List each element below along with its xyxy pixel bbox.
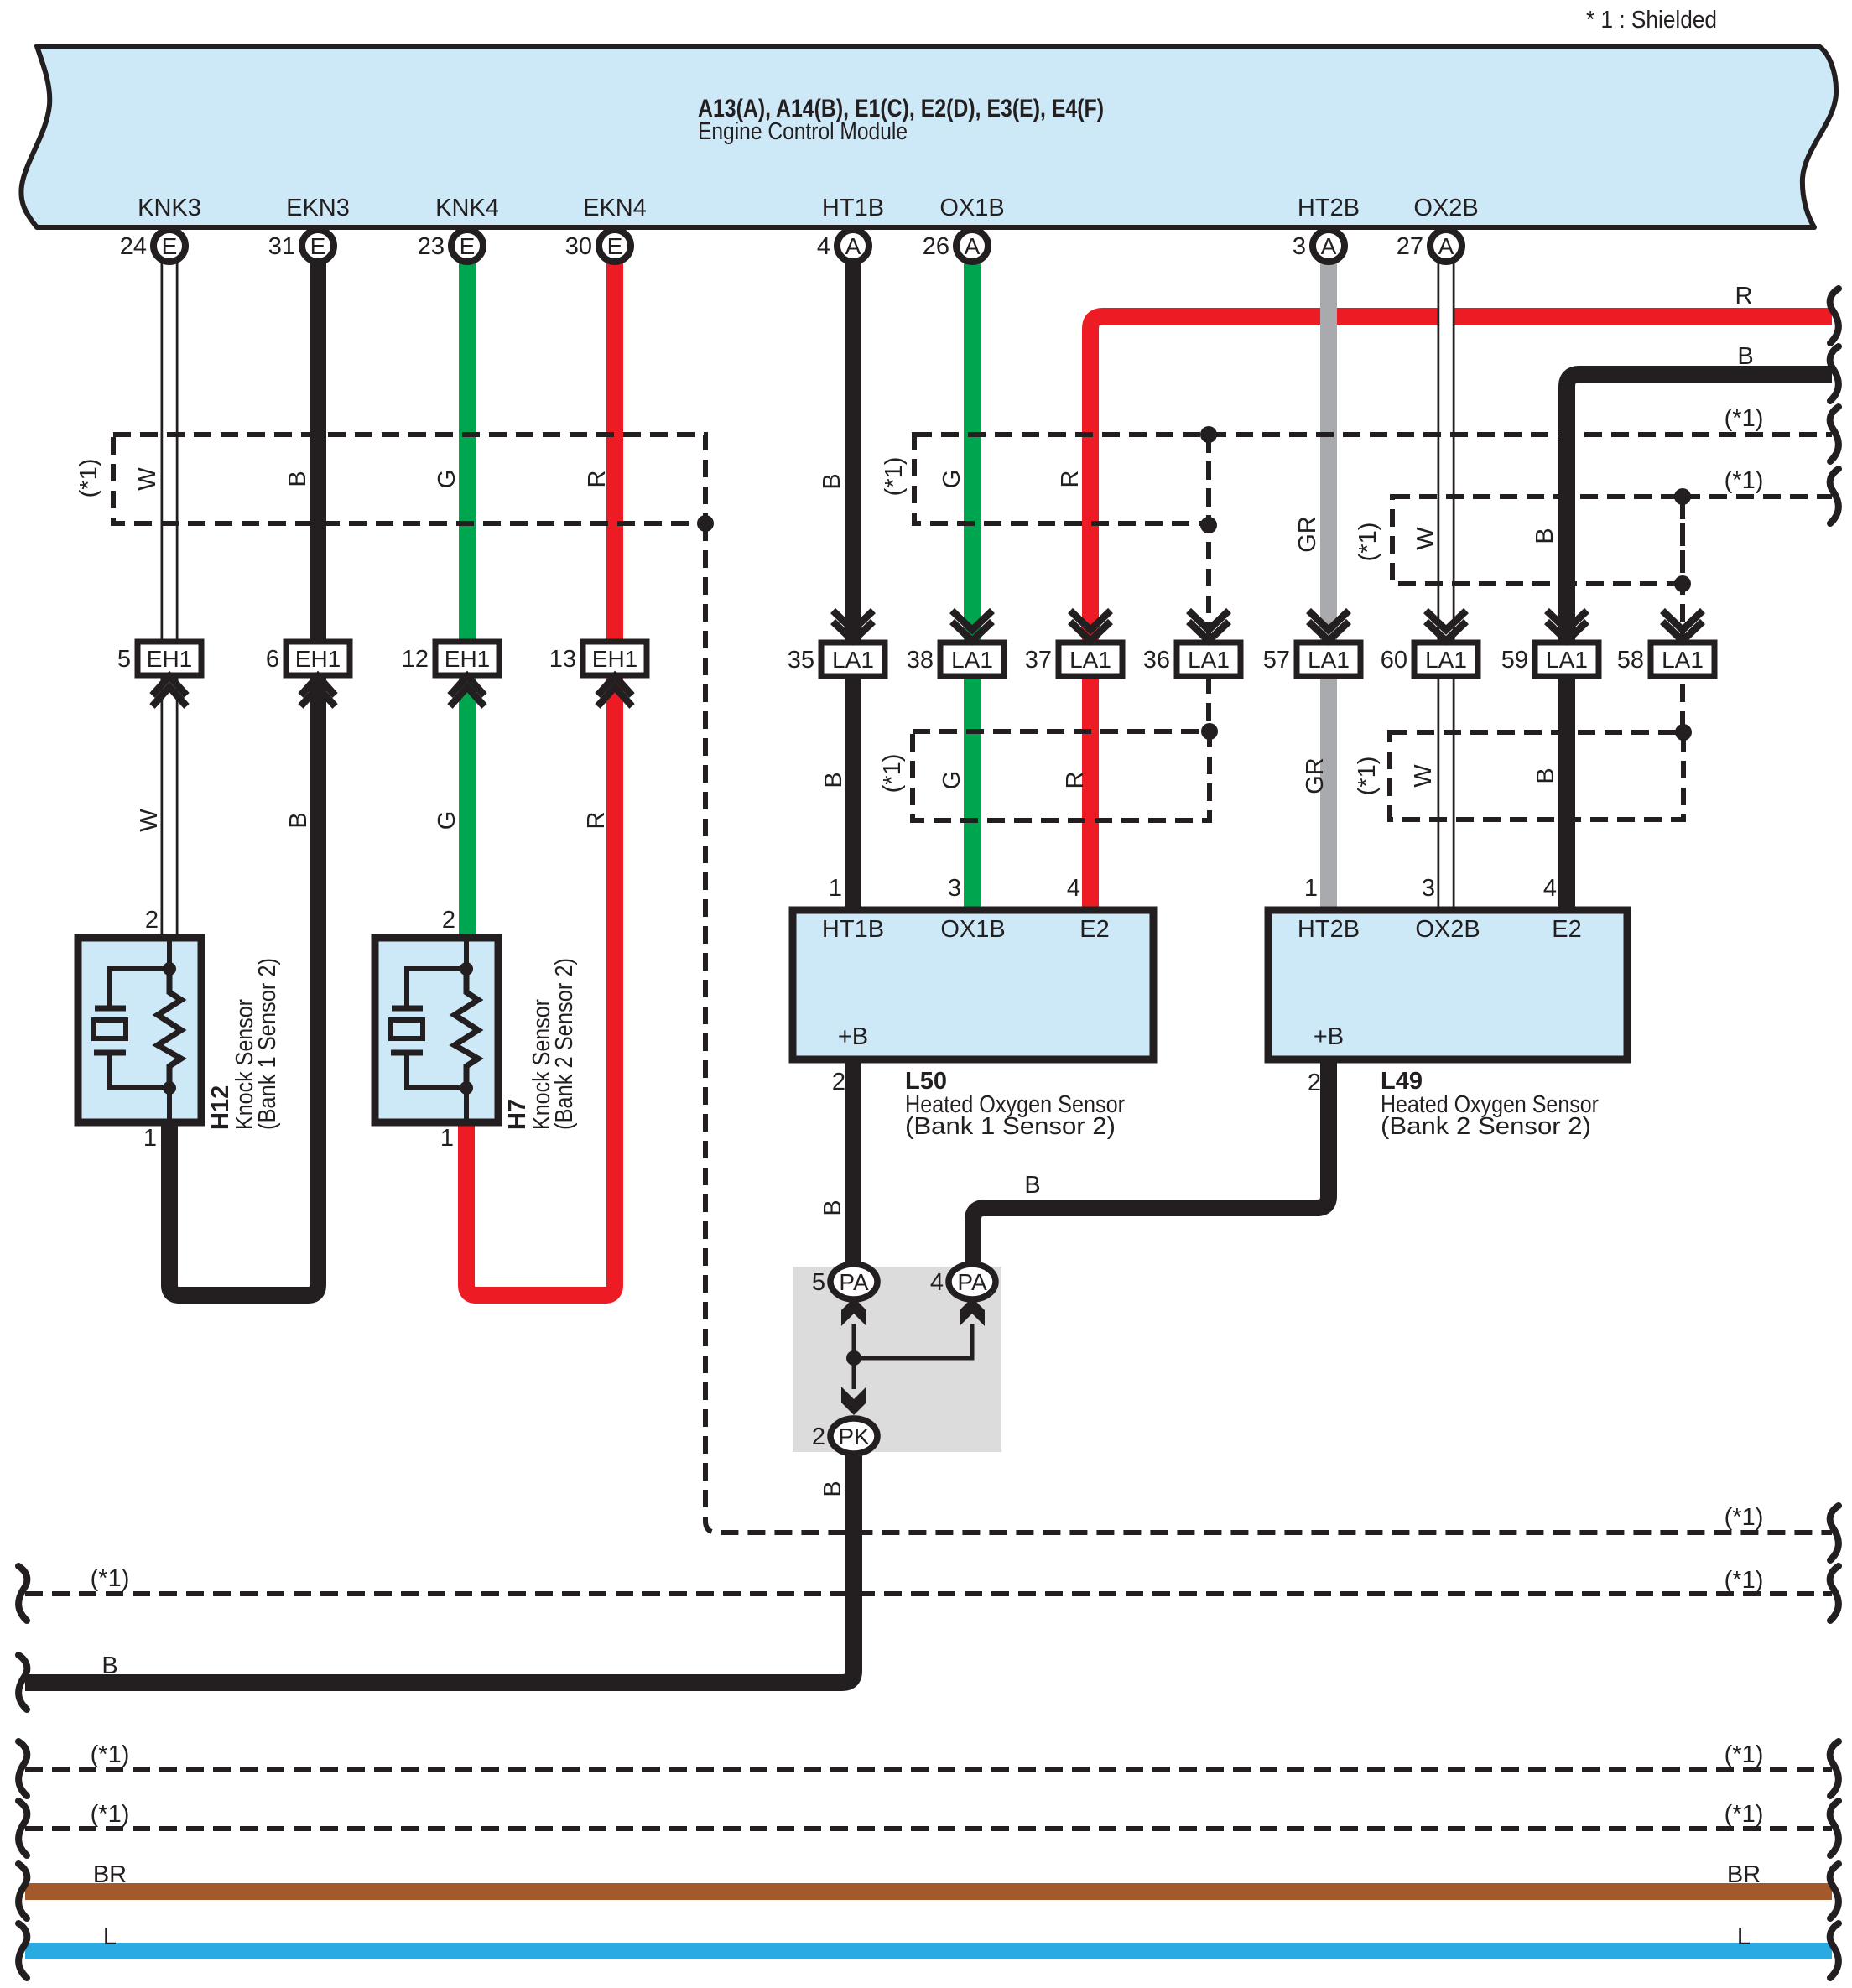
in-line connector 6 EH1 (knock) [266, 642, 350, 706]
shield wire full width lower 1 (dashed) [25, 1767, 1832, 1772]
svg-text:(*1): (*1) [881, 457, 908, 497]
svg-text:12: 12 [402, 646, 429, 673]
svg-text:23: 23 [418, 233, 445, 260]
svg-text:1: 1 [829, 875, 842, 902]
svg-text:+B: +B [1314, 1023, 1344, 1050]
svg-text:1: 1 [1304, 875, 1318, 902]
in-line connector 36 LA1 (oxygen) [1143, 611, 1241, 676]
svg-text:LA1: LA1 [832, 647, 874, 673]
svg-text:2: 2 [442, 907, 455, 934]
svg-text:OX2B: OX2B [1415, 916, 1480, 943]
H12 internal wiring [110, 941, 169, 1119]
svg-text:(Bank 2 Sensor 2): (Bank 2 Sensor 2) [1381, 1113, 1591, 1140]
connector pin 23 E (KNK4) [418, 230, 483, 262]
svg-text:G: G [939, 470, 965, 489]
svg-text:LA1: LA1 [951, 647, 993, 673]
svg-text:(*1): (*1) [1725, 1567, 1764, 1594]
svg-text:E2: E2 [1552, 916, 1581, 943]
connector pin 24 E (KNK3) [120, 230, 185, 262]
svg-text:LA1: LA1 [1069, 647, 1111, 673]
svg-text:3: 3 [948, 875, 961, 902]
connector arrows [841, 1298, 866, 1326]
svg-text:E: E [607, 233, 623, 259]
junction node in gray block [846, 1350, 861, 1366]
svg-text:3: 3 [1422, 875, 1435, 902]
in-line connector 60 LA1 (oxygen) [1381, 611, 1478, 676]
svg-text:A: A [965, 233, 981, 259]
svg-text:G: G [434, 811, 460, 830]
svg-text:R: R [1062, 772, 1089, 789]
svg-text:(Bank 2 Sensor 2): (Bank 2 Sensor 2) [551, 958, 578, 1130]
svg-text:PA: PA [839, 1269, 869, 1295]
svg-text:5: 5 [812, 1269, 825, 1296]
wire GR from ECM 3 HT2B to L49 pin 1 (gray) [1320, 246, 1337, 913]
svg-text:GR: GR [1294, 516, 1321, 553]
svg-text:KNK3: KNK3 [138, 195, 201, 221]
svg-text:E: E [162, 233, 178, 259]
in-line connector 5 EH1 (knock) [117, 642, 201, 706]
in-line connector 57 LA1 (oxygen) [1263, 611, 1360, 676]
svg-text:* 1 : Shielded: * 1 : Shielded [1586, 7, 1717, 34]
svg-text:3: 3 [1293, 233, 1306, 260]
svg-text:(*1): (*1) [1725, 1741, 1764, 1768]
svg-text:59: 59 [1501, 647, 1528, 674]
svg-text:30: 30 [565, 233, 592, 260]
in-line connector 37 LA1 (oxygen) [1025, 611, 1122, 676]
svg-text:H12: H12 [207, 1085, 234, 1130]
svg-text:HT1B: HT1B [822, 916, 884, 943]
wire B from ECM 4 HT1B to L50 pin 1 (black) [845, 246, 861, 913]
svg-text:36: 36 [1143, 647, 1170, 674]
svg-text:G: G [434, 470, 460, 489]
H7 resistor [455, 969, 478, 1088]
svg-text:OX1B: OX1B [940, 916, 1005, 943]
connector pin 31 E (EKN3) [268, 230, 334, 262]
svg-text:BR: BR [93, 1861, 127, 1888]
svg-text:(Bank 1 Sensor 2): (Bank 1 Sensor 2) [905, 1113, 1116, 1140]
svg-text:(*1): (*1) [1354, 757, 1381, 796]
svg-text:(*1): (*1) [91, 1741, 130, 1768]
wire B from page edge to L49 pin 4 E2 (black) [1567, 374, 1832, 913]
shield drain wire through 36 LA1 [1206, 435, 1211, 731]
svg-text:(*1): (*1) [91, 1565, 130, 1592]
in-line connector 35 LA1 (oxygen) [788, 611, 885, 676]
heated oxygen sensor L49 box [1268, 910, 1627, 1059]
svg-text:(Bank 1 Sensor 2): (Bank 1 Sensor 2) [254, 958, 281, 1130]
svg-text:L: L [1737, 1923, 1751, 1950]
shield around HT1B/OX1B/E2 wires upper (dashed box) [914, 435, 1209, 523]
shield around HT2B/OX2B/E2 wires upper right (dashed box) [1392, 497, 1683, 584]
connector pin 27 A (OX2B) [1397, 230, 1462, 262]
svg-text:2: 2 [1308, 1069, 1321, 1096]
svg-text:2: 2 [832, 1069, 845, 1095]
wire L full width (light blue) [25, 1943, 1832, 1959]
svg-text:KNK4: KNK4 [435, 195, 499, 221]
svg-text:R: R [584, 471, 611, 488]
page continuation symbols left [18, 1566, 27, 1621]
svg-text:13: 13 [549, 646, 576, 673]
svg-text:EKN3: EKN3 [286, 195, 350, 221]
shield continuation to page edge at right (upper middle) [1209, 432, 1832, 437]
svg-text:PK: PK [838, 1423, 870, 1449]
svg-text:2: 2 [812, 1423, 825, 1450]
svg-text:E: E [460, 233, 476, 259]
svg-text:4: 4 [930, 1269, 944, 1296]
svg-text:A: A [845, 233, 861, 259]
svg-text:2: 2 [145, 907, 159, 934]
svg-text:B: B [284, 471, 311, 487]
svg-text:HT1B: HT1B [822, 195, 884, 221]
svg-text:E2: E2 [1079, 916, 1109, 943]
svg-text:EH1: EH1 [592, 646, 637, 672]
svg-text:W: W [136, 809, 163, 832]
svg-text:Engine Control Module: Engine Control Module [698, 118, 908, 145]
connector pin 26 A (OX1B) [923, 230, 988, 262]
shield junction nodes [697, 515, 714, 532]
shield wire full width lower 2 (dashed) [25, 1826, 1832, 1831]
svg-text:B: B [1532, 768, 1559, 783]
svg-text:E: E [310, 233, 326, 259]
svg-text:4: 4 [817, 233, 830, 260]
wire G from ECM 23 KNK4 to H7 pin 2 (green) [459, 246, 476, 941]
wire R from page edge to L50 pin 4 E2 (red) [1090, 316, 1832, 913]
svg-text:(*1): (*1) [1725, 1801, 1764, 1828]
svg-text:OX2B: OX2B [1413, 195, 1478, 221]
svg-text:38: 38 [907, 647, 934, 674]
svg-text:EKN4: EKN4 [583, 195, 647, 221]
svg-text:B: B [820, 772, 847, 788]
svg-text:B: B [819, 1200, 846, 1215]
shield wire full width (dashed) [25, 1591, 1832, 1596]
connector 2 PK [812, 1418, 877, 1454]
svg-text:R: R [1735, 283, 1753, 310]
svg-text:B: B [1737, 343, 1753, 370]
svg-text:(*1): (*1) [91, 1801, 130, 1828]
connector pin 3 A (HT2B) [1293, 230, 1345, 262]
knock sensor H7 box [375, 938, 498, 1122]
Engine Control Module A13/A14/E1/E2/E3/E4 box [21, 46, 1836, 227]
H12 resistor [158, 969, 181, 1088]
knock sensor H12 box [78, 938, 201, 1122]
in-line connector 58 LA1 (oxygen) [1617, 611, 1714, 676]
svg-text:27: 27 [1397, 233, 1423, 260]
svg-text:A: A [1321, 233, 1337, 259]
junction block internal wire 5PA-4PA-2PK [854, 1324, 972, 1389]
svg-text:L: L [103, 1923, 117, 1950]
svg-text:B: B [101, 1652, 117, 1679]
svg-text:60: 60 [1381, 647, 1407, 674]
svg-text:HT2B: HT2B [1298, 195, 1360, 221]
shield drain wire from left shield box to page edge [705, 523, 1832, 1533]
svg-text:LA1: LA1 [1546, 647, 1588, 673]
svg-text:B: B [285, 812, 312, 828]
svg-text:R: R [1057, 471, 1084, 488]
svg-text:OX1B: OX1B [939, 195, 1004, 221]
H7 internal junction nodes [460, 962, 473, 976]
svg-text:B: B [819, 1481, 846, 1496]
junction block (gray) behind PA/PK connectors [793, 1267, 1001, 1452]
in-line connector 12 EH1 (knock) [402, 642, 499, 706]
svg-text:W: W [1410, 764, 1437, 788]
H7 internal wiring [407, 941, 466, 1119]
svg-text:1: 1 [143, 1125, 157, 1152]
svg-text:5: 5 [117, 646, 131, 673]
svg-text:(*1): (*1) [1725, 405, 1764, 432]
wire B from ECM 31 EKN3 down, U-turn to H12 pin 1 (black) [169, 246, 318, 1295]
wire B from PK pin 2 to page edge (black ground) [25, 1452, 854, 1683]
svg-text:H7: H7 [504, 1099, 531, 1130]
svg-text:R: R [583, 812, 610, 830]
in-line connector 38 LA1 (oxygen) [907, 611, 1004, 676]
wire B from L49 +B pin 2 to junction 4 PA (black) [973, 1056, 1329, 1268]
in-line connector 13 EH1 (knock) [549, 642, 647, 706]
svg-text:31: 31 [268, 233, 295, 260]
svg-text:LA1: LA1 [1308, 647, 1350, 673]
svg-text:EH1: EH1 [147, 646, 192, 672]
svg-text:B: B [1532, 528, 1558, 544]
shield around L49 harness (dashed box) [1390, 732, 1683, 820]
wire B from L50 +B pin 2 to junction 5 PA (black) [845, 1056, 861, 1268]
svg-text:4: 4 [1543, 875, 1557, 902]
svg-text:35: 35 [788, 647, 814, 674]
wire W from ECM 24 KNK3 to H12 pin 2 (white) [161, 246, 179, 941]
svg-text:26: 26 [923, 233, 949, 260]
svg-text:57: 57 [1263, 647, 1290, 674]
svg-text:EH1: EH1 [445, 646, 490, 672]
svg-text:+B: +B [838, 1023, 868, 1050]
svg-text:HT2B: HT2B [1298, 916, 1360, 943]
svg-text:(*1): (*1) [879, 754, 906, 794]
wire R from ECM 30 EKN4 down, U-turn to H7 pin 1 (red) [466, 246, 615, 1295]
shield around KNK3/EKN3/KNK4/EKN4 wires (dashed box) [113, 435, 705, 523]
svg-text:24: 24 [120, 233, 147, 260]
svg-text:G: G [939, 771, 965, 790]
svg-text:B: B [1024, 1172, 1040, 1199]
svg-text:(*1): (*1) [1725, 1504, 1764, 1531]
svg-text:(*1): (*1) [1355, 523, 1381, 562]
shield continuation to page edge at right (upper right) [1683, 494, 1832, 499]
connector pin 30 E (EKN4) [565, 230, 631, 262]
H12 piezo element [94, 1008, 126, 1053]
connector 5 PA [812, 1264, 877, 1299]
page continuation symbols right [1830, 289, 1839, 343]
heated oxygen sensor L50 box [793, 910, 1153, 1059]
svg-text:B: B [819, 473, 845, 489]
svg-text:GR: GR [1302, 757, 1329, 794]
shield drain wire through 58 LA1 [1680, 497, 1685, 732]
svg-text:(*1): (*1) [75, 459, 102, 498]
svg-text:PA: PA [957, 1269, 987, 1295]
svg-text:LA1: LA1 [1425, 647, 1467, 673]
svg-text:37: 37 [1025, 647, 1052, 674]
svg-text:1: 1 [440, 1125, 454, 1152]
H7 piezo element [391, 1008, 423, 1053]
wire W from ECM 27 OX2B to L49 pin 3 (white) [1438, 246, 1455, 913]
in-line connector 59 LA1 (oxygen) [1501, 611, 1599, 676]
svg-text:58: 58 [1617, 647, 1644, 674]
wire BR full width (brown) [25, 1883, 1832, 1900]
connector pin 4 A (HT1B) [817, 230, 869, 262]
shield around L50 harness (dashed box) [913, 731, 1210, 820]
wire G from ECM 26 OX1B to L50 pin 3 (green) [964, 246, 981, 913]
svg-text:(*1): (*1) [1725, 467, 1764, 494]
svg-text:W: W [134, 467, 161, 491]
svg-text:6: 6 [266, 646, 279, 673]
svg-text:LA1: LA1 [1662, 647, 1704, 673]
svg-text:EH1: EH1 [295, 646, 341, 672]
svg-text:W: W [1412, 527, 1439, 550]
svg-text:A: A [1438, 233, 1454, 259]
H12 internal junction nodes [163, 962, 176, 976]
svg-text:BR: BR [1727, 1861, 1761, 1888]
svg-text:LA1: LA1 [1188, 647, 1230, 673]
svg-text:4: 4 [1067, 875, 1080, 902]
connector 4 PA [930, 1264, 996, 1299]
